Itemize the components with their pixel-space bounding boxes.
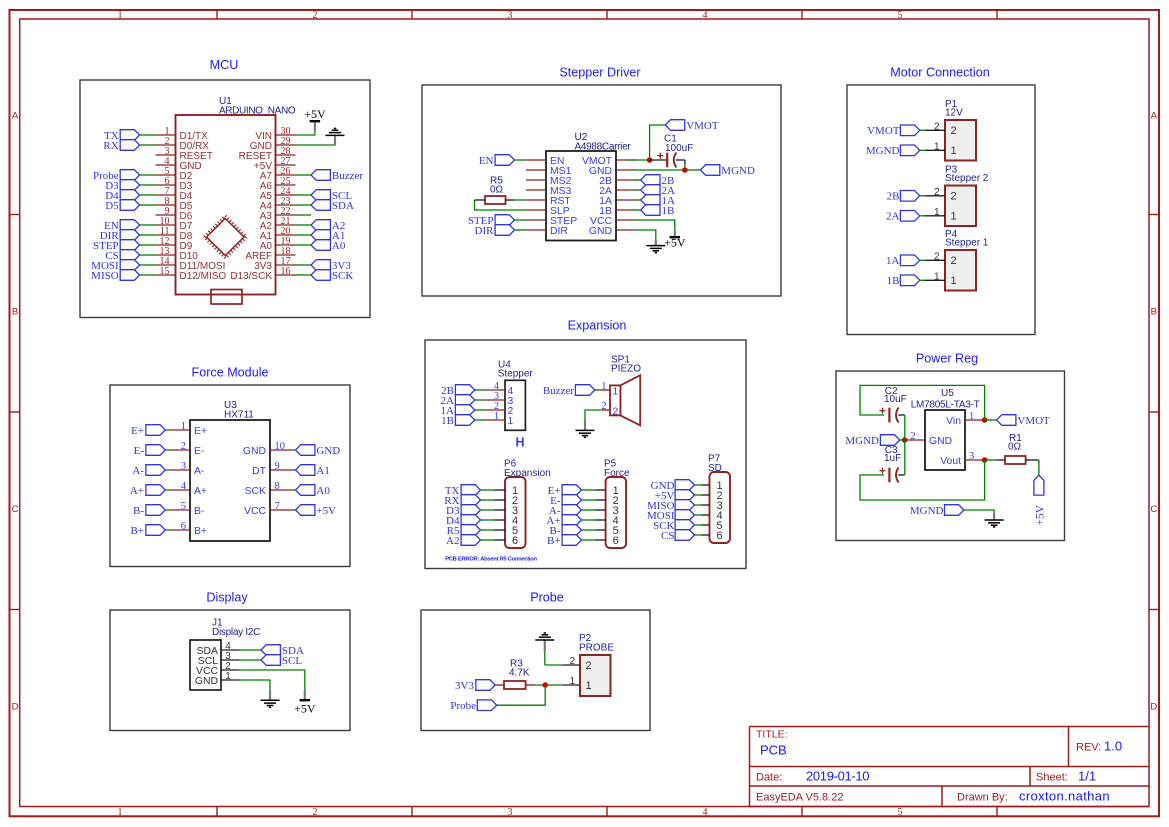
svg-text:3: 3 — [969, 451, 974, 462]
junction MGND — [682, 167, 688, 173]
net flag RX — [103, 140, 139, 152]
svg-text:2: 2 — [313, 10, 318, 21]
wire U1 to net Buzzer — [296, 174, 312, 176]
wire Vout to R1 — [985, 459, 997, 461]
U1 pin 18 (AREF) — [245, 246, 295, 262]
net flag D3 — [446, 505, 480, 517]
net flag VMOT — [665, 120, 719, 132]
U5 pin 2 GND — [905, 431, 952, 447]
P5 pin 6 — [596, 535, 619, 547]
P5 pin 2 — [596, 495, 619, 507]
net flag Buzzer — [543, 385, 595, 397]
C1 left lead — [650, 159, 668, 161]
section box Probe — [421, 610, 650, 731]
junction VMOT — [647, 157, 653, 163]
wire net D5 to U1 — [140, 204, 156, 206]
net flag MGND — [910, 505, 964, 517]
U2 pin MS3 — [526, 186, 572, 197]
net flag 2B — [887, 191, 920, 203]
svg-text:1.0: 1.0 — [1104, 739, 1122, 754]
U3 pin 8 (SCK) — [245, 481, 294, 497]
svg-text:B+: B+ — [547, 535, 561, 547]
wire U2 1B to flag — [634, 209, 641, 211]
net flag B- — [550, 525, 582, 537]
net flag TX — [104, 130, 140, 142]
U1 pin 13 (D10) — [156, 246, 199, 262]
wire pin29 to GND — [296, 136, 336, 145]
P6 pin 3 — [495, 505, 519, 517]
svg-text:Display I2C: Display I2C — [212, 627, 260, 638]
U1 pin 4 (GND) — [156, 156, 202, 172]
wire net STEP to U1 — [140, 244, 156, 246]
U3 pin 2 (E-) — [170, 441, 204, 457]
junction GND node — [902, 437, 908, 443]
R3 left lead — [495, 684, 504, 686]
wire 1A to P4 — [920, 259, 926, 261]
+5V symbol stepper VCC — [664, 235, 686, 249]
P1 connector body — [945, 120, 976, 161]
svg-text:+5V: +5V — [664, 235, 686, 249]
net flag SDA — [311, 200, 354, 212]
wire RX to P6 — [481, 499, 495, 501]
U3 pin 5 (B-) — [170, 501, 204, 517]
net flag EN — [479, 155, 515, 167]
svg-text:1: 1 — [934, 271, 940, 282]
U3 pin 7 (VCC) — [244, 501, 293, 517]
net flag SDA — [261, 645, 304, 657]
U2 pin DIR — [526, 226, 568, 237]
U4 pin 1 — [485, 411, 514, 427]
section box Force Module — [110, 385, 350, 567]
wire TX to P6 — [481, 489, 495, 491]
wire U1 to net A1 — [296, 234, 312, 236]
net flag RX — [444, 495, 480, 507]
ground probe GND — [535, 633, 554, 640]
P2 connector body — [580, 655, 611, 696]
J1 pin 1 (GND) — [195, 671, 239, 687]
capacitor body C1 — [657, 153, 676, 168]
svg-text:D: D — [1150, 702, 1157, 713]
wire VMOT to C2 — [860, 385, 985, 420]
net flag B+ — [547, 535, 582, 547]
svg-text:C: C — [1150, 504, 1157, 515]
svg-text:1: 1 — [951, 211, 957, 223]
svg-text:2: 2 — [910, 431, 915, 442]
U3 pin 4 (A+) — [170, 481, 207, 497]
P6 pin 4 — [495, 515, 519, 527]
U1 pin 2 (D0/RX) — [156, 136, 210, 152]
section box MCU — [80, 80, 370, 318]
net flag 2A — [641, 185, 675, 197]
wire MGND to P1 — [920, 149, 926, 151]
net flag 1A — [441, 405, 475, 417]
svg-text:2: 2 — [181, 441, 186, 452]
svg-text:MISO: MISO — [91, 270, 119, 282]
net flag A2 — [446, 535, 480, 547]
net flag DIR — [475, 225, 515, 237]
svg-text:Stepper 2: Stepper 2 — [945, 173, 989, 184]
wire VCC to +5V — [239, 670, 305, 691]
svg-text:HX711: HX711 — [224, 409, 254, 420]
svg-text:Expansion: Expansion — [568, 319, 627, 333]
net flag 2A — [441, 395, 475, 407]
U1 pin 10 (D7) — [156, 216, 193, 232]
svg-text:Force Module: Force Module — [192, 366, 269, 380]
svg-text:ARDUINO_NANO: ARDUINO_NANO — [219, 106, 296, 117]
svg-text:Vin: Vin — [946, 416, 961, 427]
svg-text:1A: 1A — [886, 255, 900, 267]
U2 pin GND right — [589, 166, 636, 177]
svg-text:EN: EN — [479, 155, 494, 167]
svg-text:PCB ERROR: Absent R5 Connectio: PCB ERROR: Absent R5 Connection — [445, 557, 537, 563]
svg-text:B-: B- — [133, 505, 144, 517]
svg-text:Probe: Probe — [530, 591, 564, 605]
net flag 3V3 — [311, 260, 351, 272]
wire GND wire — [239, 680, 270, 691]
net flag D4 — [105, 190, 139, 202]
power stem display GND — [269, 690, 271, 700]
U1 pin 8 (D5) — [156, 196, 193, 212]
wire B+ to U3 — [165, 529, 170, 531]
U1 pin 6 (D3) — [156, 176, 193, 192]
U2 pin MS1 — [526, 166, 572, 177]
section box Expansion — [425, 340, 746, 569]
U1 pin 29 (GND) — [250, 136, 296, 152]
wire VIN to +5V — [296, 130, 315, 135]
svg-text:15: 15 — [160, 266, 170, 277]
wire R5 to P6 — [481, 529, 495, 531]
title block outline — [750, 727, 1150, 807]
P6 pin 5 — [495, 525, 519, 537]
svg-text:1uF: 1uF — [884, 453, 901, 464]
wire MGND to flag — [685, 169, 701, 171]
U1 pin 24 (A5) — [260, 186, 296, 202]
P7 pin 4 — [701, 510, 722, 522]
power stem display +5V — [304, 690, 306, 699]
svg-text:3V3: 3V3 — [455, 680, 474, 692]
svg-text:10: 10 — [275, 441, 286, 452]
SP1 pin 2 — [601, 401, 618, 417]
P5 pin 1 — [596, 485, 619, 497]
svg-text:1: 1 — [969, 411, 974, 422]
net flag 1B — [887, 275, 920, 287]
svg-text:7: 7 — [275, 501, 280, 512]
P4 pin 1 — [925, 271, 957, 287]
U1 QFP package diamond decoration — [204, 216, 246, 258]
C3 right lead — [898, 474, 904, 476]
svg-text:A-: A- — [132, 465, 144, 477]
svg-text:Stepper 1: Stepper 1 — [945, 238, 989, 249]
net flag MGND — [866, 145, 920, 157]
net flag VMOT — [867, 125, 920, 137]
wire net TX to U1 — [140, 134, 156, 136]
frame row ticks right — [1149, 215, 1159, 610]
resistor body R3 — [504, 681, 526, 689]
ground powerreg GND — [985, 520, 1004, 527]
P5 pin 3 — [596, 505, 619, 517]
svg-text:A: A — [1151, 111, 1158, 122]
net flag +5V vertical — [1034, 475, 1047, 525]
wire E+ to P5 — [582, 489, 596, 491]
wire U1 to net SDA — [296, 204, 312, 206]
P6 connector body — [505, 477, 526, 548]
svg-text:A+: A+ — [130, 485, 144, 497]
net flag E- — [550, 495, 581, 507]
svg-text:A1: A1 — [316, 465, 329, 477]
resistor body R1 — [1005, 456, 1026, 464]
wire U2 1A to flag — [634, 199, 641, 201]
svg-text:MCU: MCU — [210, 58, 239, 72]
svg-text:A2: A2 — [446, 535, 459, 547]
svg-text:6: 6 — [512, 535, 518, 547]
svg-text:Stepper Driver: Stepper Driver — [559, 66, 640, 80]
svg-text:Stepper: Stepper — [498, 369, 534, 380]
net flag D4 — [446, 515, 480, 527]
capacitor body C2 — [880, 408, 899, 423]
svg-text:3: 3 — [181, 461, 186, 472]
U1 pin 23 (A4) — [260, 196, 296, 212]
net flag 2B — [641, 175, 675, 187]
net flag GND — [296, 445, 341, 457]
wire Buzzer to SP1 — [595, 389, 601, 391]
P4 connector body — [945, 250, 976, 291]
wire net EN to U1 — [140, 224, 156, 226]
U1 pin 28 (RESET) — [239, 146, 296, 162]
svg-text:0Ω: 0Ω — [1008, 442, 1022, 453]
P7 pin 6 — [701, 530, 722, 542]
C2 to GND node — [904, 415, 906, 440]
svg-text:Display: Display — [206, 591, 248, 605]
wire MGND to ground — [964, 510, 994, 514]
wire 1A to U4 — [475, 409, 485, 411]
svg-text:GND: GND — [929, 436, 952, 447]
svg-text:LM7805L-TA3-T: LM7805L-TA3-T — [911, 400, 980, 411]
svg-text:Motor Connection: Motor Connection — [890, 66, 989, 80]
P1 pin 1 — [925, 141, 957, 157]
svg-text:PIEZO: PIEZO — [611, 364, 641, 375]
svg-text:D13/SCK: D13/SCK — [230, 271, 272, 282]
wire A+ to U3 — [165, 489, 170, 491]
ground stepper GND — [646, 246, 665, 253]
wire MISO to P7 — [695, 504, 702, 506]
U1 pin 1 (D1/TX) — [156, 126, 209, 142]
wire SCL wire — [239, 659, 261, 661]
svg-text:MGND: MGND — [845, 435, 879, 447]
P7 connector body — [710, 472, 731, 543]
P1 pin 2 — [925, 121, 957, 137]
svg-text:VCC: VCC — [244, 506, 266, 517]
wire A2 to P6 — [481, 539, 495, 541]
wire 1B to P4 — [920, 279, 926, 281]
P6 pin 6 — [495, 535, 519, 547]
net flag A0 — [296, 485, 331, 497]
power stem probe GND — [544, 640, 546, 652]
U2 pin RST — [526, 196, 571, 207]
ground expansion GND — [576, 430, 595, 437]
svg-text:Sheet:: Sheet: — [1036, 772, 1068, 784]
svg-text:A0: A0 — [316, 485, 330, 497]
power stem expansion GND — [584, 421, 586, 430]
MCU U1 chip body — [176, 115, 276, 295]
net flag A1 — [296, 465, 330, 477]
wire STEP to U2 — [515, 219, 527, 221]
svg-text:E+: E+ — [131, 425, 144, 437]
svg-text:1: 1 — [508, 416, 514, 427]
U4 pin 2 — [485, 401, 514, 417]
net flag 2A — [886, 211, 920, 223]
U3 pin 6 (B+) — [170, 521, 207, 537]
svg-text:1: 1 — [613, 386, 619, 397]
P3 pin 1 — [925, 207, 957, 223]
frame column numbers bottom — [118, 807, 903, 818]
svg-text:4: 4 — [703, 807, 708, 818]
svg-text:2: 2 — [586, 660, 592, 672]
net flag SCL — [311, 190, 352, 202]
wire pin2 wire — [545, 664, 563, 666]
svg-text:VMOT: VMOT — [867, 125, 900, 137]
svg-text:100uF: 100uF — [665, 143, 693, 154]
U2 pin VCC right — [590, 216, 636, 227]
wire C1 to MGND vertical — [684, 164, 686, 171]
svg-text:A0: A0 — [332, 240, 346, 252]
+5V symbol display VCC — [294, 700, 316, 715]
wire B+ to P5 — [582, 539, 596, 541]
svg-text:2: 2 — [951, 191, 957, 203]
svg-text:9: 9 — [275, 461, 280, 472]
net flag B+ — [130, 525, 165, 537]
svg-text:H: H — [515, 436, 524, 450]
svg-text:GND: GND — [195, 676, 218, 687]
svg-text:2: 2 — [569, 656, 575, 667]
net flag +5V — [655, 490, 695, 502]
U1 pin 11 (D8) — [156, 226, 193, 242]
J1 pin 3 (SCL) — [198, 651, 239, 667]
wire E+ to U3 — [165, 429, 170, 431]
svg-text:2: 2 — [934, 187, 940, 198]
power stem stepper +5V — [674, 230, 676, 237]
svg-text:2: 2 — [934, 251, 940, 262]
U3 pin 1 (E+) — [170, 421, 207, 437]
svg-text:1: 1 — [118, 807, 123, 818]
wire SP1 pin2 to ground — [585, 410, 602, 421]
C3 to GND node — [904, 440, 906, 475]
net flag GND — [651, 480, 695, 492]
P3 pin 2 — [925, 187, 957, 203]
frame column ticks bottom — [217, 807, 997, 817]
wire DIR to U2 — [515, 229, 527, 231]
svg-text:SCL: SCL — [282, 655, 302, 667]
wire U1 to net 3V3 — [296, 264, 312, 266]
net flag A- — [132, 465, 165, 477]
svg-text:A-: A- — [194, 466, 204, 477]
net flag MOSI — [91, 260, 139, 272]
svg-text:REV:: REV: — [1076, 742, 1101, 754]
C1 right lead — [676, 159, 685, 161]
svg-text:1: 1 — [181, 421, 186, 432]
power stem MCU +5V — [314, 122, 316, 130]
wire EN to U2 — [515, 159, 527, 161]
U5 pin 3 Vout — [940, 451, 985, 467]
svg-text:DIR: DIR — [475, 225, 495, 237]
wire U1 to net SCL — [296, 194, 312, 196]
svg-text:2B: 2B — [887, 191, 900, 203]
svg-text:TITLE:: TITLE: — [756, 729, 788, 741]
svg-text:1: 1 — [951, 275, 957, 287]
power stem powerreg GND — [993, 513, 995, 520]
wire 2B to U4 — [475, 389, 485, 391]
svg-text:1: 1 — [934, 141, 940, 152]
net flag Probe — [450, 700, 496, 712]
svg-text:D12/MISO: D12/MISO — [180, 271, 227, 282]
R1 left lead — [997, 459, 1006, 461]
wire net Probe to U1 — [140, 174, 156, 176]
junction Vin node — [982, 417, 988, 423]
U1 pin 21 (A2) — [260, 216, 296, 232]
svg-text:8: 8 — [275, 481, 280, 492]
svg-text:4: 4 — [181, 481, 187, 492]
svg-text:1: 1 — [951, 145, 957, 157]
U1 pin 17 (3V3) — [254, 256, 295, 272]
net flag TX — [445, 485, 481, 497]
net flag DIR — [100, 230, 140, 242]
svg-text:1: 1 — [118, 10, 123, 21]
junction probe node — [542, 682, 548, 688]
C1 to MGND corner — [684, 160, 686, 164]
net flag 3V3 — [455, 680, 495, 692]
wire net MOSI to U1 — [140, 264, 156, 266]
J1 connector body — [190, 640, 221, 690]
ground MCU GND — [326, 128, 345, 135]
svg-text:3: 3 — [508, 10, 513, 21]
P5 connector body — [606, 477, 627, 548]
power stem stepper GND — [655, 240, 657, 245]
wire D3 to P6 — [481, 509, 495, 511]
wire CS to P7 — [695, 534, 702, 536]
svg-text:1B: 1B — [887, 275, 900, 287]
capacitor body C3 — [880, 468, 899, 483]
wire R5 to RST — [515, 199, 526, 201]
svg-text:12V: 12V — [945, 108, 963, 119]
net flag A2 — [311, 220, 345, 232]
net flag 1A — [641, 195, 675, 207]
svg-text:16: 16 — [281, 266, 291, 277]
svg-text:B+: B+ — [130, 525, 144, 537]
svg-text:SCK: SCK — [245, 486, 266, 497]
svg-text:GND: GND — [589, 226, 612, 237]
wire net D3 to U1 — [140, 184, 156, 186]
wire R1 to +5V flag — [1038, 460, 1040, 476]
wire U3 to A1 — [294, 469, 296, 471]
svg-text:U5: U5 — [941, 388, 954, 399]
P3 connector body — [945, 186, 976, 227]
section box Display — [110, 610, 350, 731]
svg-text:Vout: Vout — [940, 456, 961, 467]
U2 pin SLP — [526, 206, 570, 217]
net flag 1B — [641, 205, 675, 217]
wire net RX to U1 — [140, 144, 156, 146]
power stem MCU GND — [334, 136, 336, 145]
wire 1B to U4 — [475, 419, 485, 421]
svg-text:GND: GND — [243, 446, 266, 457]
U1 pin 22 (A3) — [260, 206, 296, 222]
wire A- to P5 — [582, 509, 596, 511]
net flag Probe — [93, 170, 140, 182]
net flag EN — [104, 220, 140, 232]
net flag SCK — [311, 270, 353, 282]
U2 A4988 chip body — [546, 151, 616, 241]
wire D4 to P6 — [481, 519, 495, 521]
svg-text:6: 6 — [613, 535, 619, 547]
